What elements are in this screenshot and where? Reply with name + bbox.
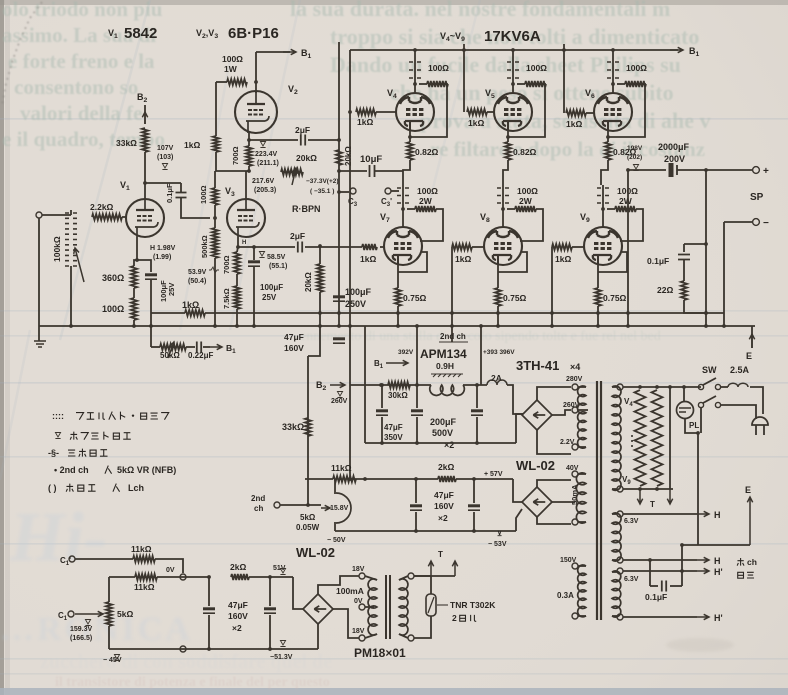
terminal C1' [69, 556, 75, 562]
wire [612, 513, 617, 515]
tube V2 6B-P16 [235, 91, 277, 133]
beads V&#8325; out2 [507, 62, 519, 78]
wire top bus B1 [350, 49, 678, 51]
svg-text:H 1.98V: H 1.98V [150, 245, 176, 252]
wire bridge left to rail [516, 414, 523, 443]
wire bridge top to 280V [537, 387, 571, 400]
heater resistor a [635, 390, 646, 486]
svg-text:1kΩ: 1kΩ [566, 119, 582, 129]
svg-text:50kΩ: 50kΩ [160, 351, 180, 360]
beads V&#8326; out3 [607, 62, 619, 78]
resistor 1k V5 grid [467, 109, 487, 115]
wire [399, 634, 408, 638]
svg-text:100Ω: 100Ω [222, 54, 243, 64]
wire to 100 ohm [216, 81, 227, 83]
wire 1k to V5 [487, 111, 494, 113]
wire speaker plus down [705, 170, 707, 326]
svg-text:350V: 350V [384, 433, 403, 442]
plate feed V&#8328; out5 [502, 185, 504, 227]
svg-text:58.5V: 58.5V [267, 254, 286, 261]
wire 7.5k to bus [236, 309, 238, 326]
svg-text:33kΩ: 33kΩ [282, 422, 304, 432]
wire [365, 576, 377, 580]
svg-text:47μF: 47μF [228, 600, 248, 610]
svg-text:53.9V: 53.9V [188, 269, 207, 276]
nfb pot arrow [168, 342, 175, 358]
wire cap to V3 grid chain [181, 198, 210, 218]
resistor 1k V4 grid [356, 109, 376, 115]
terminal SP plus [753, 167, 760, 174]
wire bracket bottom [216, 152, 248, 171]
resistor 100 ohm 1W [227, 79, 247, 85]
svg-text:5kΩ: 5kΩ [117, 609, 133, 619]
svg-text:0.75Ω: 0.75Ω [403, 293, 427, 303]
wire between cathode resistors [133, 288, 135, 298]
legend block [48, 411, 176, 493]
svg-text:+393 396V: +393 396V [483, 349, 515, 356]
svg-text:consentono so: consentono so [14, 75, 138, 99]
wire to fuse [721, 386, 728, 388]
arrow T b [452, 561, 457, 576]
svg-text:-§-: -§- [48, 448, 59, 458]
wire 11k left [305, 478, 333, 480]
capacitor 10uF [370, 165, 375, 177]
heater resistor b [652, 390, 663, 486]
wire [476, 417, 478, 443]
wire drop1 to rail [416, 362, 418, 385]
wire cathode to 2uF lower [238, 246, 295, 248]
wire pot bottom [108, 626, 110, 649]
wire to V7 grid [305, 246, 362, 248]
wire zobel bottom [684, 300, 704, 313]
wire cap top [180, 183, 182, 192]
wire C3' stub [391, 190, 399, 192]
cathode chain output tube [507, 131, 509, 142]
wire B drop 2 [480, 326, 482, 362]
svg-text:500V: 500V [432, 428, 453, 438]
wire H4 [623, 616, 697, 618]
tube V&#8328; out5 17KV6A [484, 226, 522, 265]
wire minus down [723, 222, 725, 326]
svg-text:2kΩ: 2kΩ [230, 562, 246, 572]
svg-text:valori della fe: valori della fe [20, 101, 142, 125]
wire bridge3 right [333, 609, 359, 638]
input terminal [36, 212, 42, 218]
wire [578, 521, 586, 523]
wire PL return [685, 419, 698, 545]
wire rail x339 [338, 42, 340, 326]
svg-text:1kΩ: 1kΩ [184, 140, 200, 150]
wire loop left [649, 560, 651, 586]
svg-text:217.6V: 217.6V [252, 178, 275, 185]
bleed ruled lines [0, 118, 788, 120]
svg-text:T: T [650, 500, 655, 509]
wire [578, 615, 586, 617]
arrow heater b [667, 489, 672, 504]
legend line2 voltage-to-ground [55, 433, 60, 439]
resistor 1k V6 grid [566, 110, 586, 116]
svg-text:• 2nd ch: • 2nd ch [54, 465, 89, 475]
wire V2 plate feed [255, 52, 257, 93]
svg-text:700Ω: 700Ω [231, 146, 240, 165]
svg-text:2kΩ: 2kΩ [438, 462, 454, 472]
terminal SP minus [753, 219, 760, 226]
svg-text:250V: 250V [345, 299, 366, 309]
svg-text:22Ω: 22Ω [657, 285, 673, 295]
capacitor bias 47uF a [203, 607, 215, 610]
wire psu rail right [463, 384, 487, 386]
wire 1k to V6 [586, 112, 594, 114]
wire V9 grid drop [551, 247, 553, 326]
resistor 100 ohm screen V&#8326; out3 [625, 81, 646, 87]
capacitor 47uF 160V on rail [333, 337, 345, 340]
wire tap [365, 606, 374, 608]
resistor 2k bias [231, 574, 249, 580]
resistor 1k NFB [185, 310, 205, 316]
wire to bridge3 [249, 576, 293, 578]
arrow H2 [697, 557, 709, 562]
svg-text:1kΩ: 1kΩ [360, 254, 376, 264]
wire beam bracket V&#8328; out5 [498, 252, 527, 272]
wire psu rail bottom [365, 442, 516, 444]
wire input ground drop [38, 218, 40, 341]
wire to 100uF [137, 260, 151, 272]
svg-text:2μF: 2μF [290, 231, 305, 241]
svg-text:0.1μF: 0.1μF [647, 256, 669, 266]
wire to B1 left [256, 51, 290, 53]
wire bridge2 left [513, 479, 522, 502]
bleed watermark bottom-left [0, 499, 193, 648]
svg-text:11kΩ: 11kΩ [331, 463, 352, 473]
svg-text:33kΩ: 33kΩ [116, 138, 137, 148]
svg-text:E: E [745, 485, 751, 495]
wire term stub [578, 386, 586, 388]
wire bridge2 bottom [537, 517, 571, 524]
wire x320 top [319, 246, 321, 264]
svg-text:la sua durata. nel nostre fond: la sua durata. nel nostre fondamentali m [290, 0, 670, 21]
svg-text:20kΩ: 20kΩ [344, 146, 353, 166]
arrow heater a [637, 489, 642, 504]
svg-text:0.82Ω: 0.82Ω [415, 147, 439, 157]
wire to V1 grid [122, 216, 127, 218]
svg-text:40V: 40V [566, 465, 579, 472]
legend line3 line voltage [68, 450, 75, 456]
feed arrow B2 [142, 112, 147, 124]
wire 700 to plate node [248, 166, 250, 171]
label ryo ch [737, 558, 744, 566]
wire 2nd drive drop [463, 44, 465, 112]
svg-text:150V: 150V [560, 557, 577, 564]
wire to bus [133, 320, 135, 326]
wire to C3 [339, 191, 349, 193]
wire C1 arrow [75, 611, 103, 616]
wire x320 to x308 [308, 292, 320, 356]
wire PL feed [683, 387, 685, 402]
svg-text:18V: 18V [352, 566, 365, 573]
svg-text:25V: 25V [167, 283, 176, 296]
secondary heater winding [612, 386, 621, 490]
primary winding 150V [578, 565, 586, 617]
beads V&#8328; out5 [497, 188, 509, 203]
svg-text:2.2kΩ: 2.2kΩ [90, 202, 114, 212]
svg-text:− 53V: − 53V [488, 541, 507, 548]
terminal C3' [385, 188, 391, 194]
resistor 20k lower [317, 264, 323, 292]
svg-text:WL-02: WL-02 [296, 545, 335, 560]
wire SP minus [724, 221, 752, 223]
svg-text:5842: 5842 [124, 25, 157, 42]
svg-text:100Ω: 100Ω [626, 63, 647, 73]
svg-text:0.05W: 0.05W [296, 523, 320, 532]
arrow B1 right [670, 47, 683, 52]
bridge WL-02 upper [522, 487, 552, 517]
100uF 25V branch V3 [252, 245, 256, 249]
legend line4 ha glyph [105, 466, 112, 474]
resistor 1k V9 grid [552, 244, 572, 250]
svg-text:6.3V: 6.3V [624, 576, 639, 583]
switch lever 2 [703, 396, 716, 403]
mains plug [752, 417, 768, 425]
wire 2000uF neg leg [627, 170, 629, 326]
tube V3 6B-P16 [227, 199, 265, 237]
svg-text:2nd ch: 2nd ch [440, 332, 466, 341]
svg-text:30kΩ: 30kΩ [388, 391, 408, 400]
switch pole 2 [698, 402, 703, 407]
svg-text:ch: ch [747, 557, 757, 567]
svg-text:−37.3V(+2): −37.3V(+2) [306, 178, 339, 185]
tube V&#8329; out6 17KV6A [584, 226, 622, 265]
wire row479 left [350, 478, 438, 480]
svg-text:H: H [714, 510, 721, 520]
svg-text:…RONICA: …RONICA [0, 611, 193, 648]
wire [683, 260, 685, 281]
wire rail x308 [307, 356, 309, 505]
volume pot 100k beads [65, 213, 77, 266]
svg-text:(166.5): (166.5) [70, 635, 92, 642]
svg-text:47μF: 47μF [434, 490, 454, 500]
cathode chain output tube [409, 131, 411, 142]
capacitor 0.1uF zobel [678, 255, 690, 260]
wire rail x350 [349, 50, 351, 479]
svg-text:0V: 0V [166, 567, 175, 574]
svg-text:700Ω: 700Ω [222, 255, 231, 274]
secondary 6.3V b [612, 571, 621, 617]
pot wiper [321, 505, 330, 510]
wire B2 feed [144, 105, 146, 124]
resistor 22 ohm [681, 281, 687, 300]
svg-text:47μF: 47μF [384, 423, 403, 432]
primary winding 40V [576, 473, 586, 523]
wire [415, 512, 417, 531]
resistor 5k pot [106, 602, 112, 626]
wire to 2uF [249, 139, 298, 141]
svg-text:0.75Ω: 0.75Ω [603, 293, 627, 303]
capacitor 2uF upper [301, 135, 305, 146]
svg-text:H': H' [714, 567, 723, 577]
resistor 100 ohm screen V&#8324; out1 [427, 81, 448, 87]
power transformer primary terminals [572, 384, 578, 390]
wire 200uF 1 [416, 385, 418, 408]
svg-text:1kΩ: 1kΩ [182, 300, 199, 310]
svg-text:×2: ×2 [438, 513, 448, 523]
wire bracket V&#8329; out6 [620, 209, 643, 241]
wire cap to NFB row [150, 280, 152, 347]
svg-text:::::: :::: [52, 411, 64, 421]
rail junction dots right [348, 324, 352, 328]
terminal 2nd ch [274, 502, 280, 508]
scan edge shading [0, 0, 788, 5]
resistor 20k rail [336, 150, 342, 165]
wire zobel top [684, 243, 706, 245]
svg-text:5kΩ: 5kΩ [300, 513, 316, 522]
resistor 360 ohm [131, 266, 137, 288]
wire loop right [681, 545, 683, 586]
svg-text:159.3V: 159.3V [70, 626, 93, 633]
wire cap down [253, 267, 255, 326]
arrow T a [428, 561, 433, 576]
wire to 100ohm V&#8325; out2 [517, 83, 525, 85]
svg-text:160V: 160V [228, 611, 248, 621]
svg-text:R·BPN: R·BPN [292, 204, 321, 214]
svg-text:18V: 18V [352, 628, 365, 635]
terminal C1 [68, 611, 74, 617]
wire pot top [108, 577, 110, 602]
svg-text:−: − [763, 218, 769, 229]
svg-text:il transistore di potenza e fi: il transistore di potenza e finale del p… [55, 675, 330, 690]
svg-text:0.3A: 0.3A [557, 591, 574, 600]
resistor 100 ohm 2W V&#8329; out6 [615, 206, 636, 212]
svg-text:(50.4): (50.4) [188, 278, 206, 285]
svg-text:100μF: 100μF [260, 283, 283, 292]
wire bias bottom [109, 648, 318, 650]
svg-text:223.4V: 223.4V [255, 151, 278, 158]
svg-text:(103): (103) [157, 154, 173, 161]
wire [670, 585, 682, 587]
wire grid node [214, 205, 216, 228]
svg-text:(1.99): (1.99) [153, 254, 171, 261]
wire 2nd ch to pot [280, 504, 321, 506]
wire cap to + [677, 169, 752, 171]
wire H1 [623, 513, 697, 515]
capacitor 0.1uF heater [662, 581, 666, 592]
wire bridge3 bottom [317, 624, 319, 649]
wire [365, 634, 377, 638]
wire input to pot [42, 214, 71, 216]
svg-text:(55.1): (55.1) [269, 263, 287, 270]
svg-text:0.75Ω: 0.75Ω [503, 293, 527, 303]
svg-text:0.9H: 0.9H [436, 361, 454, 371]
legend line1 katakana ferrite beads [76, 413, 84, 420]
svg-text:6B·P16: 6B·P16 [228, 25, 279, 42]
svg-text:e forte freno e la: e forte freno e la [8, 49, 155, 73]
svg-text:20kΩ: 20kΩ [304, 272, 313, 292]
svg-text:APM134: APM134 [420, 347, 467, 361]
wire [430, 576, 432, 594]
svg-text:olo triodo non piu: olo triodo non piu [2, 0, 163, 21]
heater wire c [669, 387, 671, 489]
wire [269, 615, 271, 649]
plate feed V&#8327; out4 [402, 185, 404, 227]
svg-text:100Ω: 100Ω [517, 186, 538, 196]
resistor 1k V8 grid [452, 244, 472, 250]
resistor 2.2k [92, 214, 122, 220]
wire to 0V node [155, 559, 183, 573]
resistor 7.5k [234, 286, 240, 309]
primary winding HV [578, 386, 586, 448]
bleed diagonal graph lines [60, 0, 150, 340]
svg-text:×4: ×4 [570, 362, 580, 372]
beads V&#8327; out4 [397, 188, 409, 203]
svg-text:7.5kΩ: 7.5kΩ [222, 288, 231, 309]
wire [186, 346, 195, 348]
svg-text:100Ω: 100Ω [199, 185, 208, 204]
resistor 100 ohm screen V&#8325; out2 [525, 81, 546, 87]
wire [208, 615, 210, 649]
wire bridge3 left [293, 577, 303, 609]
wire 2nd ch drop [451, 247, 453, 342]
wire psu rail left [350, 384, 431, 386]
wire V2 cathode [248, 133, 250, 146]
svg-text:2000μF: 2000μF [658, 142, 690, 152]
svg-text:+ 57V: + 57V [484, 471, 503, 478]
wire [650, 585, 658, 587]
choke coil [430, 385, 465, 395]
plate feed V&#8329; out6 [602, 185, 604, 227]
beads V&#8329; out6 [597, 188, 609, 203]
resistor 50k NFB [160, 344, 186, 350]
top-left corner smudge [2, 2, 42, 105]
fuse 2.5A [728, 383, 748, 387]
wire E [751, 326, 753, 348]
wire to 360 [134, 260, 137, 266]
svg-text:0.1μF: 0.1μF [645, 592, 667, 602]
svg-text:TNR T302K: TNR T302K [450, 600, 496, 610]
wire pot top to rail [334, 479, 336, 494]
svg-text:⊻: ⊻ [497, 530, 502, 538]
wire bridge2 top to 40V [537, 480, 571, 487]
arrow B1 left [283, 49, 296, 54]
leader TNR [437, 604, 448, 606]
ground bus [34, 341, 46, 347]
wire to 100ohm V&#8324; out1 [419, 83, 427, 85]
wire bracket V&#8327; out4 [420, 209, 443, 241]
svg-text:0.82Ω: 0.82Ω [513, 147, 537, 157]
arrow B1 psu [386, 360, 408, 365]
arrow to B1 nfb [210, 344, 222, 349]
svg-text:− 50V: − 50V [327, 537, 346, 544]
wire screen bracket V&#8324; out1 [410, 84, 448, 137]
pot 5k NFB semicircle [336, 493, 351, 523]
svg-text:2nd: 2nd [251, 494, 265, 503]
wire to E [682, 544, 750, 546]
svg-text:PM18×01: PM18×01 [354, 646, 406, 660]
svg-text:0.22μF: 0.22μF [188, 351, 213, 360]
wire row531 [335, 530, 516, 532]
svg-text:100Ω: 100Ω [526, 63, 547, 73]
wire V1 cathode [136, 237, 138, 260]
wire [612, 615, 617, 617]
wire screen bracket V&#8326; out3 [608, 84, 646, 137]
svg-text:×2: ×2 [444, 440, 454, 450]
resistor 700 ohm upper [246, 146, 252, 166]
arrow H4 [697, 614, 709, 619]
arrow H1 [697, 511, 709, 516]
wire [109, 576, 135, 578]
svg-text:(211.1): (211.1) [257, 160, 279, 167]
legend line5 inner voltage ha [66, 484, 73, 492]
wire [157, 576, 209, 578]
svg-text:100Ω: 100Ω [102, 304, 124, 314]
